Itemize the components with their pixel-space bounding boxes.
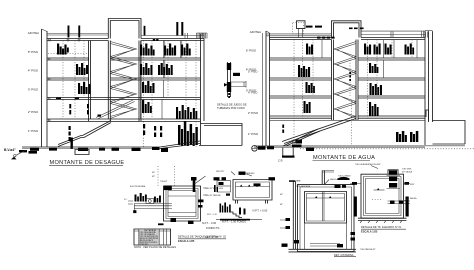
stair flights (chevrons) — [110, 42, 136, 119]
roof slab — [47, 39, 204, 41]
left small box — [217, 181, 231, 192]
svg-text:ESCALA 1/25: ESCALA 1/25 — [361, 229, 378, 233]
side ticks — [350, 183, 410, 185]
pit below ground — [283, 148, 293, 157]
riser dots in stair — [349, 72, 351, 81]
svg-text:AZOTEA: AZOTEA — [250, 30, 261, 34]
svg-text:1° PISO: 1° PISO — [248, 132, 259, 136]
pump bars — [135, 193, 147, 202]
svg-text:DET. CISTERNA: DET. CISTERNA — [334, 253, 354, 257]
3rd — [306, 82, 315, 93]
floor slabs — [270, 58, 426, 60]
svg-text:DETALLE DE TK. ELEVADO N° 01: DETALLE DE TK. ELEVADO N° 01 — [361, 225, 402, 229]
left vertical pipe — [293, 181, 295, 250]
right annex — [426, 110, 465, 144]
svg-text:AZOTEA: AZOTEA — [28, 31, 39, 35]
second floor stair diagonal — [96, 100, 135, 119]
svg-text:FONDO TK.: FONDO TK. — [206, 226, 220, 230]
bottom base — [289, 249, 357, 252]
svg-text:C.R.: C.R. — [278, 159, 283, 163]
svg-text:2° PISO: 2° PISO — [28, 110, 39, 114]
1st floor corner pump — [296, 140, 303, 144]
svg-text:N.P.T. - 1.50 FONDO: N.P.T. - 1.50 FONDO — [222, 220, 246, 224]
svg-text:VENT Ø2": VENT Ø2" — [216, 171, 225, 173]
stair tower — [332, 21, 362, 38]
floor labels — [28, 31, 39, 133]
svg-text:5° PISO: 5° PISO — [246, 49, 257, 53]
svg-text:B.V.ø4": B.V.ø4" — [4, 148, 16, 152]
svg-text:Ø2": Ø2" — [280, 194, 283, 196]
right wall — [201, 34, 205, 145]
chevrons (apex left) — [334, 42, 356, 119]
svg-text:TUB. LLENADO: TUB. LLENADO — [338, 175, 352, 178]
svg-text:TUB. DE ALIMENTACION Ø3/4": TUB. DE ALIMENTACION Ø3/4" — [355, 163, 381, 166]
svg-text:DETALLE DE TANQUE CISTERNA N°: DETALLE DE TANQUE CISTERNA N° 02 — [178, 235, 226, 239]
svg-text:V.C.: V.C. — [124, 199, 128, 201]
roof dashes — [153, 39, 155, 41]
tank cisterna 02 — [164, 186, 201, 221]
svg-text:Ø2" SALIDA: Ø2" SALIDA — [402, 171, 413, 174]
svg-text:3° PISO: 3° PISO — [246, 89, 257, 93]
svg-text:N.P.T. - 3.00: N.P.T. - 3.00 — [202, 221, 217, 225]
trampa box below ground — [75, 150, 89, 155]
dashed risers — [294, 40, 412, 147]
5th — [306, 44, 313, 55]
marks bottom left — [351, 232, 356, 235]
drain hubs — [49, 39, 51, 41]
svg-text:TUB Ø4": TUB Ø4" — [160, 181, 167, 183]
svg-text:Ø1 1/2": Ø1 1/2" — [338, 179, 344, 181]
inner tank — [305, 192, 347, 224]
svg-text:N.P.T. - 1.20: N.P.T. - 1.20 — [207, 214, 217, 216]
bottom — [358, 218, 407, 220]
5th floor — [57, 44, 69, 55]
svg-text:MONTANTE DE AGUA: MONTANTE DE AGUA — [313, 155, 375, 161]
svg-text:ESCALA 1/25: ESCALA 1/25 — [178, 239, 195, 243]
ramp to annex — [160, 141, 200, 149]
water line — [374, 189, 385, 191]
2nd floor — [69, 104, 71, 114]
floor slabs — [47, 58, 201, 60]
svg-text:DET. N° 03: DET. N° 03 — [205, 235, 218, 239]
crossing pipe — [388, 201, 411, 204]
svg-text:Ø1": Ø1" — [280, 204, 283, 206]
svg-text:TUB. VENT.: TUB. VENT. — [402, 169, 412, 171]
legend table — [134, 229, 171, 245]
top black component — [388, 170, 398, 174]
ground marks — [30, 148, 39, 151]
roof dash row — [317, 37, 321, 39]
svg-text:ELECTROBOMBA: ELECTROBOMBA — [130, 185, 146, 188]
svg-text:N.P.T. + 0.00: N.P.T. + 0.00 — [253, 209, 268, 213]
roof boxes — [293, 23, 304, 34]
svg-text:Ø2": Ø2" — [152, 176, 155, 178]
right annex — [199, 124, 242, 146]
bars below — [220, 203, 231, 213]
risers from building — [158, 166, 175, 186]
left/right bars — [354, 197, 357, 217]
stair tower — [108, 19, 141, 39]
extra tiny annotations — [124, 172, 352, 201]
svg-text:4° PISO: 4° PISO — [28, 69, 39, 73]
svg-text:2° PISO: 2° PISO — [248, 111, 259, 115]
2nd — [304, 101, 311, 113]
leader line + triangle — [16, 150, 26, 155]
right wall — [425, 31, 433, 145]
svg-text:5° PISO: 5° PISO — [28, 50, 39, 54]
cascading steps — [230, 212, 243, 218]
small black marks around tank — [164, 186, 172, 191]
svg-text:TUB. Ø1" REBOSE: TUB. Ø1" REBOSE — [205, 195, 221, 197]
svg-text:TUBERIAS POR CODO: TUBERIAS POR CODO — [217, 106, 245, 110]
4th floor — [76, 63, 88, 75]
svg-text:SALIDA: SALIDA — [410, 197, 417, 200]
manhole cover mound — [338, 177, 350, 180]
svg-text:MONTANTE DE DESAGUE: MONTANTE DE DESAGUE — [50, 160, 125, 166]
4th — [298, 65, 310, 77]
left wall — [266, 31, 270, 146]
legs — [236, 200, 268, 204]
svg-text:TAPA SANITARIA: TAPA SANITARIA — [296, 185, 311, 188]
shaft walls — [332, 40, 359, 121]
outer walls — [298, 184, 355, 251]
left wall — [42, 29, 48, 147]
first floor big stair diagonal — [58, 121, 111, 147]
interior partitions right zone — [141, 41, 182, 120]
svg-text:3° PISO: 3° PISO — [28, 88, 39, 92]
b2 right parapet railing ticks — [391, 32, 428, 38]
svg-text:NOTA : VER PLANO DE DETALLES: NOTA : VER PLANO DE DETALLES — [134, 245, 176, 249]
marks — [335, 185, 341, 188]
extra marks near detail2 left — [214, 185, 230, 196]
roof slab — [270, 38, 426, 40]
1st floor tall pipes — [178, 121, 198, 146]
dashed risers — [48, 41, 196, 148]
svg-text:Ø3/4": Ø3/4" — [410, 184, 415, 186]
right parapet railing — [185, 33, 207, 39]
1st, ground pipes — [396, 131, 418, 142]
svg-text:TUB. REBOSE Ø2": TUB. REBOSE Ø2" — [360, 249, 376, 251]
tower top dashes — [349, 28, 353, 30]
interior partitions — [322, 40, 417, 78]
top pipe — [322, 171, 324, 185]
ground symbols — [252, 146, 258, 152]
svg-text:1° PISO: 1° PISO — [28, 129, 39, 133]
stair shaft walls — [89, 41, 142, 122]
vent pipes above roof — [68, 26, 70, 38]
1st floor stair diagonal — [282, 116, 356, 144]
svg-text:4° PISO: 4° PISO — [246, 68, 257, 72]
3rd floor — [78, 82, 91, 94]
svg-text:Ø4": Ø4" — [152, 172, 155, 174]
